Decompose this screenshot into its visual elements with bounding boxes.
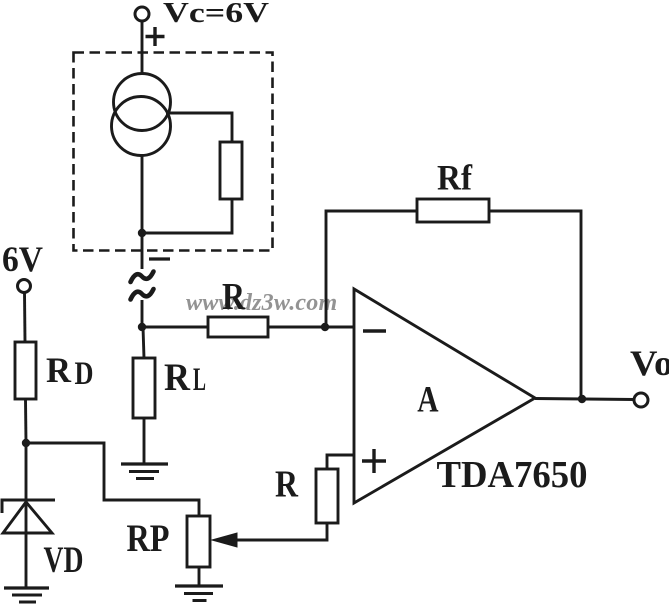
potentiometer RP wiper arrow — [212, 533, 237, 547]
wire 6V to RD — [23, 292, 26, 342]
wire wiper to R bottom — [237, 523, 327, 540]
svg-text:VD: VD — [44, 540, 84, 581]
wire R to inverting input — [268, 326, 353, 329]
wire RL from node — [143, 327, 144, 358]
ground RL — [121, 464, 168, 479]
label Vc=6V — [163, 0, 269, 29]
svg-text:R: R — [275, 464, 298, 506]
wire RP to ground — [198, 567, 201, 586]
resistor RD — [15, 342, 36, 399]
label 6V — [2, 239, 43, 279]
wire RL to ground — [143, 418, 146, 464]
wire RD to node — [24, 399, 27, 443]
plus polarity mark — [146, 27, 165, 46]
svg-text:R: R — [46, 350, 72, 390]
svg-text:Vo: Vo — [630, 343, 669, 383]
svg-text:6V: 6V — [2, 239, 43, 279]
op-amp plus input mark — [362, 449, 386, 473]
ground RP — [175, 586, 223, 601]
junction node feedback — [321, 323, 329, 331]
wire squiggle to input node — [141, 300, 144, 327]
break squiggle upper — [131, 272, 154, 283]
label RL — [164, 356, 206, 399]
current source circle upper — [114, 74, 171, 131]
svg-text:D: D — [75, 356, 94, 392]
label RD — [46, 350, 94, 392]
resistor RL — [133, 358, 155, 418]
label Rf — [437, 158, 473, 198]
potentiometer RP body — [187, 516, 210, 567]
watermark www.dz3w.com — [186, 290, 337, 316]
junction node RD-VD — [22, 439, 30, 447]
wire Rf right to output node — [489, 211, 581, 399]
resistor R noninverting — [316, 469, 338, 523]
terminal 6V — [18, 280, 31, 293]
terminal Vo — [634, 393, 648, 407]
svg-text:L: L — [193, 362, 206, 398]
label RP — [127, 517, 170, 560]
wire R top to plus input — [327, 455, 354, 469]
minus polarity mark — [149, 257, 170, 260]
dashed enclosure box — [74, 53, 273, 251]
wire VD to ground — [25, 533, 28, 588]
svg-text:RP: RP — [127, 517, 170, 560]
label VD — [44, 540, 84, 581]
wire current source to bottom node — [141, 155, 144, 234]
op-amp A triangle — [354, 289, 535, 503]
op-amp minus input mark — [363, 329, 386, 332]
svg-text:www.dz3w.com: www.dz3w.com — [186, 290, 337, 316]
label Vo — [630, 343, 669, 383]
junction node input — [138, 323, 146, 331]
wire resistor bottom to node — [142, 199, 232, 233]
wire output — [535, 399, 634, 400]
junction node inside box — [138, 229, 146, 237]
label R input — [222, 276, 245, 318]
svg-text:R: R — [164, 356, 191, 399]
svg-text:A: A — [417, 380, 439, 421]
resistor R input — [208, 317, 268, 337]
wire Vc terminal to current source — [141, 21, 144, 74]
wire current source right tap — [166, 113, 232, 142]
terminal Vc — [135, 7, 149, 21]
wire node to VD — [25, 443, 28, 533]
resistor Rf — [417, 199, 489, 222]
break squiggle lower — [131, 289, 154, 300]
label TDA7650 — [437, 454, 588, 496]
label R noninverting — [275, 464, 298, 506]
diode VD cathode bar — [2, 500, 55, 513]
svg-text:Vc=6V: Vc=6V — [163, 0, 269, 29]
label A — [417, 380, 439, 421]
wire node to RP top — [26, 443, 199, 516]
current source circle lower — [112, 97, 171, 156]
svg-text:R: R — [222, 276, 245, 318]
diode VD triangle — [3, 502, 52, 533]
wire node down through box edge — [141, 233, 144, 269]
junction node output — [578, 395, 586, 403]
ground VD — [4, 588, 49, 602]
resistor inside box — [220, 142, 242, 199]
wire Rf left to feedback node — [326, 211, 417, 327]
svg-text:Rf: Rf — [437, 158, 473, 198]
svg-text:TDA7650: TDA7650 — [437, 454, 588, 496]
wire node to resistor R — [142, 326, 208, 329]
